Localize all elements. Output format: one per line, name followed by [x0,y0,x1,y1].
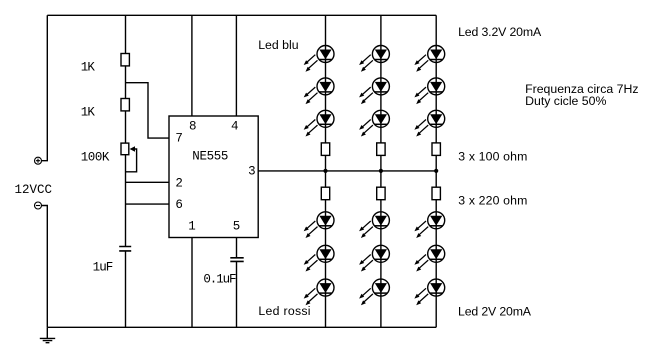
battery + terminal [35,157,42,164]
resistor R8 220ohm col2 [377,187,385,200]
wire C2 to ground rail [236,261,238,327]
LED blue D8 [414,78,444,104]
wire R2 to pot [125,111,127,143]
svg-text:3 x 220 ohm: 3 x 220 ohm [458,194,527,208]
svg-text:4: 4 [231,119,239,133]
svg-text:2: 2 [175,176,183,190]
LED blue D2 [304,78,334,104]
svg-text:6: 6 [175,198,183,212]
wire R1 to R2 [125,66,127,99]
wire C1 to ground rail [125,251,127,327]
LED blue D4 [359,46,389,72]
svg-text:12VCC: 12VCC [15,183,53,197]
resistor R6 100ohm col3 [432,143,440,156]
wire pin 5 to C2 [236,238,238,258]
capacitor C2 0.1uF [230,258,243,262]
wire pin 1 to ground [191,238,193,328]
potentiometer R3 100K [121,143,129,155]
svg-text:NE555: NE555 [192,150,228,164]
capacitor C1 1uF [119,247,131,251]
resistor R7 220ohm col1 [321,187,329,200]
wire + terminal to top rail [42,15,48,160]
svg-text:3: 3 [248,164,256,178]
wire column 2 lower [380,200,382,328]
LED red D18 [414,279,444,305]
svg-text:3 x 100 ohm: 3 x 100 ohm [458,149,527,163]
LED red D12 [304,279,334,305]
svg-text:1uF: 1uF [93,260,113,274]
wire pin 6 [126,203,170,205]
svg-text:1K: 1K [81,105,96,119]
wire column 3 lower [435,200,437,328]
op-amp U1 NE555 body [169,116,258,238]
svg-text:Led 3.2V 20mA: Led 3.2V 20mA [458,25,542,39]
wire bottom ground rail [47,326,436,328]
resistor R5 100ohm col2 [377,143,385,156]
wire column 1 upper [325,15,327,143]
svg-text:Led blu: Led blu [258,38,299,52]
svg-text:1: 1 [188,219,196,233]
node junction col1 [323,169,327,173]
wire col1 resistor to bus [325,155,327,187]
LED red D13 [359,212,389,238]
resistor R4 100ohm col1 [321,143,329,156]
wire pin 8 to rail [191,15,193,116]
svg-text:8: 8 [189,119,197,133]
wire rail to R1 [125,15,127,53]
LED blue D3 [304,110,334,136]
svg-text:Duty cicle 50%: Duty cicle 50% [525,94,606,108]
wire node to pin 7 [126,83,170,138]
LED red D11 [304,245,334,271]
LED blue D7 [414,46,444,72]
svg-text:0.1uF: 0.1uF [203,273,236,287]
svg-text:100K: 100K [81,150,110,164]
LED blue D1 [304,46,334,72]
node junction col2 [379,169,383,173]
resistor R2 1K [121,99,129,111]
wire col3 resistor to bus [435,155,437,187]
wire pin 4 to rail [235,15,237,116]
wire col2 resistor to bus [380,155,382,187]
svg-text:1K: 1K [81,61,96,75]
resistor R9 220ohm col3 [432,187,440,200]
resistor R1 1K [121,54,129,66]
wire - terminal to bottom rail [42,206,48,328]
ground [46,327,48,338]
wire pot wiper loop [126,149,137,172]
svg-text:5: 5 [233,219,241,233]
LED red D16 [414,212,444,238]
wire pin 2 [126,181,170,183]
LED red D14 [359,245,389,271]
wire column 1 lower [325,200,327,328]
svg-text:Led 2V 20mA: Led 2V 20mA [458,305,532,319]
wire pot down to C1 [125,155,127,247]
LED red D17 [414,245,444,271]
svg-text:7: 7 [175,131,183,145]
LED red D15 [359,279,389,305]
LED blue D6 [359,110,389,136]
wire column 3 upper [435,15,437,143]
svg-text:Led rossi: Led rossi [258,304,310,318]
LED blue D9 [414,110,444,136]
LED red D10 [304,212,334,238]
battery - terminal [35,202,42,209]
LED blue D5 [359,78,389,104]
node junction col3 [434,169,438,173]
wire column 2 upper [380,15,382,143]
wire pin 3 output bus [258,170,436,172]
wire top power rail [47,14,436,16]
